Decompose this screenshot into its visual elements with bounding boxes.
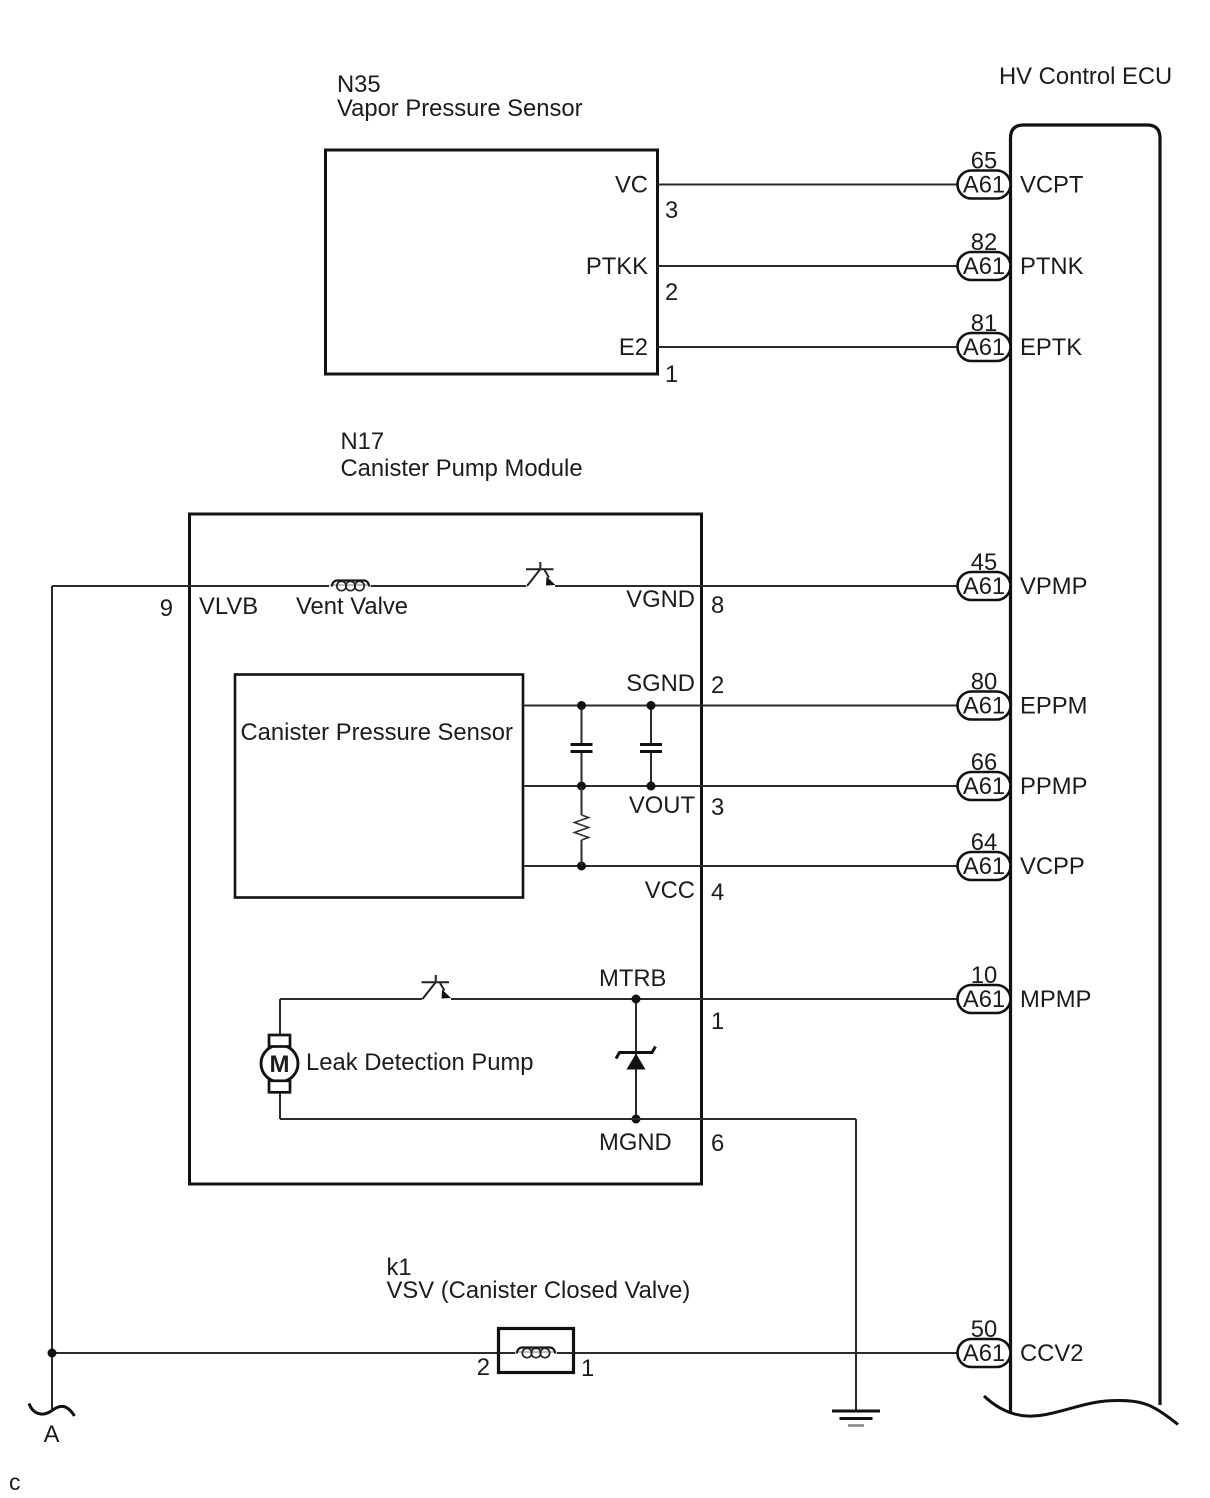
connector A61 pin 82 PTNK — [958, 229, 1084, 280]
svg-text:8: 8 — [711, 592, 724, 619]
HV control ECU body — [1011, 125, 1161, 1414]
svg-text:E2: E2 — [619, 334, 648, 361]
wire VOUT — [523, 785, 958, 787]
svg-text:3: 3 — [665, 197, 678, 224]
svg-text:MGND: MGND — [599, 1129, 672, 1156]
svg-text:VGND: VGND — [626, 586, 695, 613]
svg-text:A61: A61 — [963, 253, 1005, 280]
svg-text:A: A — [44, 1421, 60, 1448]
junction dot node A / CCV2 — [48, 1349, 57, 1358]
svg-text:2: 2 — [711, 672, 724, 699]
svg-text:N35: N35 — [337, 71, 381, 98]
connector A61 pin 50 CCV2 — [958, 1316, 1084, 1367]
svg-text:A61: A61 — [963, 986, 1005, 1013]
HV control ECU torn bottom edge — [984, 1396, 1178, 1425]
svg-text:Canister Pressure Sensor: Canister Pressure Sensor — [241, 719, 514, 746]
switch S2 on MTRB line — [422, 975, 452, 999]
svg-text:3: 3 — [711, 794, 724, 821]
svg-text:A61: A61 — [963, 693, 1005, 720]
svg-text:CCV2: CCV2 — [1020, 1340, 1083, 1367]
junction dot MTRB/D1 — [632, 995, 641, 1004]
connector A61 pin 80 EPPM — [958, 669, 1088, 720]
motor M leak detection pump — [261, 1035, 298, 1092]
junction dot VOUT/C1 — [577, 782, 586, 791]
label N17 Canister Pump Module — [341, 428, 583, 482]
wire VLVB / VGND — [52, 585, 329, 587]
label N35 Vapor Pressure Sensor — [337, 71, 583, 122]
junction dot VOUT/C2 — [647, 782, 656, 791]
svg-text:EPTK: EPTK — [1020, 334, 1082, 361]
svg-text:Leak Detection Pump: Leak Detection Pump — [306, 1049, 534, 1076]
svg-text:MTRB: MTRB — [599, 965, 666, 992]
canister pressure sensor box — [235, 675, 523, 898]
VSV solenoid valve box k1 — [499, 1329, 574, 1373]
wire VCC — [523, 865, 958, 867]
svg-text:2: 2 — [477, 1354, 490, 1381]
svg-text:HV Control ECU: HV Control ECU — [999, 63, 1172, 90]
svg-text:A61: A61 — [963, 773, 1005, 800]
svg-text:VPMP: VPMP — [1020, 573, 1087, 600]
wire CCV2 — [52, 1352, 498, 1354]
svg-text:SGND: SGND — [626, 670, 695, 697]
svg-text:c: c — [9, 1469, 21, 1495]
svg-text:PTNK: PTNK — [1020, 253, 1084, 280]
svg-text:PPMP: PPMP — [1020, 773, 1087, 800]
junction dot SGND/C2 — [647, 701, 656, 710]
ground symbol — [832, 1411, 880, 1426]
wire E2 to EPTK — [658, 346, 958, 348]
canister pump module N17 box — [190, 514, 702, 1184]
svg-text:1: 1 — [665, 361, 678, 388]
label k1 VSV (Canister Closed Valve) — [387, 1254, 691, 1304]
svg-text:A61: A61 — [963, 1340, 1005, 1367]
svg-text:2: 2 — [665, 279, 678, 306]
capacitor C1 — [571, 706, 593, 787]
wire SGND — [523, 705, 958, 707]
svg-text:A61: A61 — [963, 172, 1005, 199]
wire motor loop left vertical — [279, 999, 281, 1034]
svg-text:A61: A61 — [963, 573, 1005, 600]
svg-text:N17: N17 — [341, 428, 385, 455]
junction dot MGND/D1 — [632, 1115, 641, 1124]
wire MTRB — [280, 998, 422, 1000]
svg-text:VSV (Canister Closed Valve): VSV (Canister Closed Valve) — [387, 1277, 691, 1304]
resistor R1 — [575, 786, 589, 866]
junction dot VCC/R1 — [577, 862, 586, 871]
connector A61 pin 66 PPMP — [958, 749, 1088, 800]
connector A61 pin 10 MPMP — [958, 962, 1092, 1013]
vapor pressure sensor N35 box — [326, 150, 658, 374]
svg-text:M: M — [270, 1051, 290, 1078]
VSV coil — [499, 1348, 575, 1358]
svg-text:6: 6 — [711, 1130, 724, 1157]
svg-text:Canister Pump Module: Canister Pump Module — [341, 455, 583, 482]
svg-text:PTKK: PTKK — [586, 253, 648, 280]
wire PTKK to PTNK — [658, 265, 958, 267]
node A break symbol — [29, 1404, 75, 1417]
svg-text:1: 1 — [581, 1355, 594, 1382]
svg-text:EPPM: EPPM — [1020, 693, 1087, 720]
svg-text:VOUT: VOUT — [629, 792, 695, 819]
svg-text:9: 9 — [160, 595, 173, 622]
svg-text:Vent Valve: Vent Valve — [296, 593, 408, 620]
wire VC to VCPT — [658, 184, 958, 186]
capacitor C2 — [640, 706, 662, 787]
svg-text:4: 4 — [711, 879, 724, 906]
zener diode D1 — [616, 999, 656, 1119]
svg-text:MPMP: MPMP — [1020, 986, 1091, 1013]
svg-text:VCPT: VCPT — [1020, 172, 1083, 199]
svg-text:A61: A61 — [963, 853, 1005, 880]
svg-text:VCC: VCC — [645, 877, 695, 904]
svg-text:A61: A61 — [963, 334, 1005, 361]
wire MGND — [280, 1118, 856, 1120]
connector A61 pin 64 VCPP — [958, 829, 1085, 880]
vent valve coil L1 — [332, 581, 370, 591]
connector A61 pin 81 EPTK — [958, 310, 1083, 361]
switch S1 on VGND line — [526, 562, 556, 586]
svg-text:1: 1 — [711, 1008, 724, 1035]
svg-text:VC: VC — [615, 172, 648, 199]
svg-text:VLVB: VLVB — [199, 593, 258, 620]
svg-text:Vapor Pressure Sensor: Vapor Pressure Sensor — [337, 95, 583, 122]
connector A61 pin 45 VPMP — [958, 549, 1088, 600]
wire MGND to ground — [855, 1119, 857, 1411]
svg-text:VCPP: VCPP — [1020, 853, 1085, 880]
connector A61 pin 65 VCPT — [958, 148, 1084, 199]
wire left vertical from VLVB down to node A — [51, 586, 53, 1409]
junction dot SGND/C1 — [577, 701, 586, 710]
